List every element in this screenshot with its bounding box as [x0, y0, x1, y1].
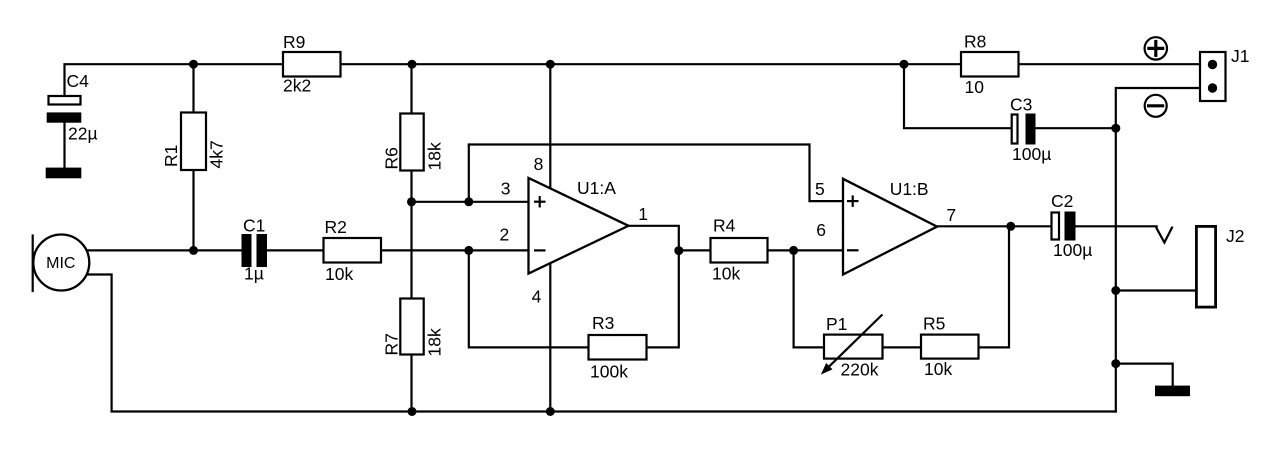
svg-text:R4: R4: [713, 216, 736, 236]
svg-text:2k2: 2k2: [283, 76, 311, 96]
svg-text:J2: J2: [1226, 226, 1244, 246]
svg-text:100k: 100k: [590, 362, 628, 382]
svg-text:10: 10: [965, 77, 985, 97]
svg-text:R9: R9: [283, 32, 305, 52]
svg-text:5: 5: [815, 179, 825, 199]
svg-text:U1:B: U1:B: [890, 179, 929, 199]
svg-text:R2: R2: [325, 217, 347, 237]
svg-text:C1: C1: [243, 216, 265, 236]
svg-text:R6: R6: [382, 147, 402, 169]
svg-text:8: 8: [534, 154, 544, 174]
svg-text:2: 2: [500, 224, 510, 244]
svg-text:U1:A: U1:A: [577, 178, 616, 198]
svg-text:C2: C2: [1051, 191, 1073, 211]
svg-text:22µ: 22µ: [68, 124, 98, 144]
svg-text:R3: R3: [592, 313, 614, 333]
svg-text:100µ: 100µ: [1053, 240, 1092, 260]
svg-text:220k: 220k: [841, 360, 879, 380]
svg-text:3: 3: [501, 179, 511, 199]
svg-text:18k: 18k: [425, 328, 445, 356]
svg-text:MIC: MIC: [46, 255, 75, 272]
svg-text:7: 7: [946, 205, 956, 225]
svg-text:6: 6: [816, 220, 826, 240]
svg-text:10k: 10k: [325, 264, 353, 284]
svg-text:R8: R8: [964, 32, 986, 52]
svg-text:1µ: 1µ: [244, 264, 264, 284]
svg-text:10k: 10k: [924, 359, 952, 379]
svg-text:18k: 18k: [425, 142, 445, 170]
svg-text:P1: P1: [826, 314, 847, 334]
svg-text:J1: J1: [1231, 46, 1249, 66]
svg-text:R7: R7: [382, 333, 402, 355]
svg-text:C4: C4: [67, 71, 90, 91]
svg-text:1: 1: [638, 204, 648, 224]
svg-text:100µ: 100µ: [1012, 144, 1051, 164]
svg-text:R1: R1: [161, 145, 181, 167]
svg-text:C3: C3: [1010, 95, 1032, 115]
svg-text:R5: R5: [923, 314, 945, 334]
svg-text:10k: 10k: [712, 264, 740, 284]
svg-text:4k7: 4k7: [207, 140, 227, 168]
svg-text:4: 4: [532, 287, 542, 307]
